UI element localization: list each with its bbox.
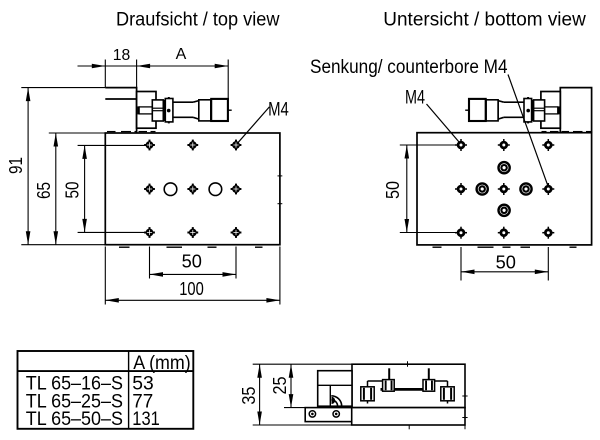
dim 91 top extension bbox=[21, 87, 105, 89]
dim 50 bottom line bbox=[150, 273, 237, 275]
hidden bracket base dashes (bottom view) bbox=[542, 131, 547, 133]
counterbore leader line bbox=[508, 75, 548, 186]
table header separator bbox=[18, 370, 194, 372]
hidden edge dashes below plate (bottom view) bbox=[433, 246, 442, 248]
counterbores M4 bbox=[477, 183, 488, 194]
foot screw left bbox=[309, 411, 315, 417]
svg-text:50: 50 bbox=[63, 182, 83, 199]
hidden edge dashes below plate bbox=[119, 246, 130, 248]
bottom view: stage base plate bbox=[417, 133, 592, 245]
svg-text:Senkung/ counterbore M4: Senkung/ counterbore M4 bbox=[310, 57, 508, 78]
svg-text:18: 18 bbox=[113, 47, 131, 64]
dim A extension line (bracket) bbox=[136, 60, 138, 88]
side view: moving carriage bbox=[352, 364, 465, 407]
svg-text:A: A bbox=[176, 46, 187, 63]
clearance hole left bbox=[164, 183, 177, 196]
clearance hole right bbox=[209, 183, 222, 196]
svg-text:M4: M4 bbox=[405, 87, 425, 108]
mount block inner lines bbox=[318, 384, 352, 386]
interior frame left bbox=[367, 381, 369, 404]
carriage interior: right bearing cage bbox=[441, 387, 454, 401]
top view: stage base plate bbox=[105, 133, 280, 245]
bottom view: micrometer bracket bbox=[560, 88, 591, 133]
svg-text:50: 50 bbox=[182, 252, 202, 272]
side view: base plate bbox=[352, 408, 465, 425]
svg-text:Draufsicht / top view: Draufsicht / top view bbox=[116, 9, 280, 30]
carriage interior: left bearing cage bbox=[361, 387, 374, 401]
centerline ticks on right edge bbox=[278, 175, 283, 177]
svg-text:65: 65 bbox=[34, 182, 54, 199]
dim 25 line bbox=[290, 364, 292, 407]
foot screw right bbox=[333, 411, 339, 417]
svg-text:TL 65–50–S: TL 65–50–S bbox=[26, 408, 123, 430]
bearing pin bbox=[332, 397, 336, 404]
dim 91/65 bottom extension bbox=[21, 244, 105, 246]
ext mid (25) bbox=[284, 407, 306, 409]
dim A extension line (micrometer end) bbox=[227, 60, 229, 111]
dim 50 line (left) bbox=[84, 145, 86, 232]
dim 50 top extension bbox=[78, 144, 146, 146]
centerline ticks bbox=[407, 361, 409, 367]
M4 leader line bbox=[238, 107, 270, 143]
dim 50 horiz line (bottom view) bbox=[461, 271, 548, 273]
side view: mounting foot bbox=[305, 408, 352, 422]
micrometer assembly (top view) bbox=[137, 92, 232, 129]
leadscrew bar bbox=[381, 388, 435, 391]
hidden bracket base dashes bbox=[107, 131, 116, 133]
svg-text:Untersicht / bottom view: Untersicht / bottom view bbox=[383, 9, 586, 30]
dim 50 vert ext lines (bottom view) bbox=[400, 144, 457, 146]
dim 65 top extension bbox=[49, 132, 106, 134]
svg-text:131: 131 bbox=[132, 408, 160, 430]
dim 100 ext lines bbox=[104, 247, 106, 305]
bracket cap line bbox=[105, 98, 136, 100]
dim 91 line bbox=[27, 88, 29, 245]
dim 18 extension line (plate left edge up) bbox=[104, 60, 106, 88]
micrometer assembly (bottom view, mirrored) bbox=[465, 92, 560, 129]
svg-text:91: 91 bbox=[6, 157, 26, 174]
dim 18 tail + arrow bbox=[78, 65, 106, 67]
dim 50 vert line (bottom view) bbox=[406, 145, 408, 233]
svg-text:25: 25 bbox=[270, 377, 290, 395]
dim A line w/ arrows bbox=[137, 65, 229, 67]
dim 65 line bbox=[55, 133, 57, 245]
M4 tapped holes 3x3 (top view) bbox=[144, 140, 155, 151]
dim 50 bottom extension bbox=[78, 231, 146, 233]
top view: micrometer bracket bbox=[105, 88, 136, 133]
dim 50 horiz ext lines (bottom view) bbox=[460, 247, 462, 281]
dim 18 line bbox=[105, 65, 136, 67]
clamp left bbox=[383, 380, 395, 392]
ext bottom (35) bbox=[253, 424, 352, 426]
table column divider bbox=[128, 351, 130, 429]
svg-text:100: 100 bbox=[179, 279, 204, 299]
clamp right bbox=[423, 380, 435, 392]
pins bbox=[388, 368, 390, 379]
side view: left mount block bbox=[318, 371, 352, 407]
svg-text:50: 50 bbox=[496, 252, 516, 272]
ext top bbox=[253, 363, 352, 365]
dim 100 line bbox=[105, 299, 280, 301]
table outer border bbox=[18, 351, 194, 429]
dim 50 bottom ext lines bbox=[149, 247, 151, 279]
interior frame right bbox=[447, 381, 449, 404]
dim 35 line bbox=[259, 364, 261, 425]
svg-text:A (mm): A (mm) bbox=[133, 352, 191, 374]
M4 leader (bottom view) bbox=[427, 104, 461, 144]
bearing arcs bbox=[331, 396, 341, 406]
svg-text:35: 35 bbox=[239, 387, 259, 405]
M4 holes 3x3 (bottom view) bbox=[455, 139, 467, 151]
svg-text:50: 50 bbox=[383, 181, 403, 199]
svg-text:M4: M4 bbox=[268, 100, 289, 121]
